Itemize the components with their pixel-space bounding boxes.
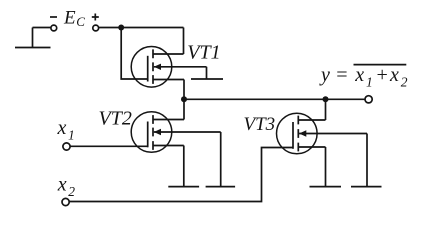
- junction dot output left: [181, 96, 187, 102]
- svg-text:+: +: [375, 64, 389, 86]
- svg-text:x: x: [57, 117, 67, 139]
- wire supply rail: [99, 27, 184, 29]
- ground VT2 source: [168, 146, 199, 187]
- wire VT1 gate feed: [121, 28, 148, 80]
- wire VT2 source stub: [153, 145, 184, 147]
- svg-text:x: x: [354, 64, 364, 86]
- terminal plus: [93, 25, 99, 31]
- svg-text:1: 1: [68, 127, 75, 142]
- wire VT3 source stub: [298, 146, 325, 148]
- wire VT3 substrate: [299, 133, 367, 135]
- svg-text:VT1: VT1: [187, 42, 220, 64]
- ground VT3 source: [310, 147, 342, 187]
- label y formula: [319, 64, 408, 89]
- svg-text:2: 2: [401, 75, 408, 90]
- wire VT1 source stub: [153, 79, 184, 81]
- wire x2 to VT3 gate: [69, 148, 293, 202]
- wire VT1 substrate: [154, 66, 207, 68]
- wire: [33, 27, 51, 29]
- svg-text:x: x: [57, 173, 67, 195]
- transistor VT1: [131, 47, 172, 88]
- overline: [354, 64, 407, 66]
- junction dot output right: [323, 96, 329, 102]
- svg-text:1: 1: [366, 75, 373, 90]
- wire VT2 drain stub: [153, 119, 184, 121]
- wire VT1 drain stub: [153, 53, 184, 55]
- label EC: [63, 8, 85, 30]
- ground VT1 substrate: [191, 67, 223, 79]
- svg-text:C: C: [76, 14, 85, 29]
- wire VT1 drain feed: [183, 28, 185, 55]
- terminal minus: [51, 25, 57, 31]
- terminal x1: [63, 143, 70, 150]
- svg-text:E: E: [63, 8, 76, 29]
- transistor VT2: [131, 112, 172, 153]
- ground VT2 substrate: [206, 132, 236, 187]
- label plus: [92, 14, 99, 21]
- wire VT3 drain to output: [325, 99, 327, 120]
- svg-text:2: 2: [68, 184, 75, 199]
- ground VT3 substrate: [351, 134, 382, 187]
- wire VT3 drain stub: [298, 119, 325, 121]
- wire output: [184, 98, 365, 100]
- wire VT2 substrate: [154, 131, 221, 133]
- label minus: [50, 16, 57, 18]
- svg-text:y: y: [319, 64, 330, 86]
- svg-text:=: =: [335, 64, 349, 86]
- terminal output: [365, 96, 372, 103]
- label x1: [57, 117, 75, 143]
- terminal x2: [62, 198, 69, 205]
- svg-text:x: x: [389, 64, 399, 86]
- svg-text:VT2: VT2: [99, 108, 132, 130]
- wire x1 to VT2 gate: [70, 145, 148, 147]
- label x2: [57, 173, 75, 199]
- junction dot: [118, 25, 124, 31]
- transistor VT3: [277, 113, 318, 154]
- ground: [15, 28, 51, 48]
- wire VT1 source to VT2 drain: [183, 80, 185, 120]
- svg-text:VT3: VT3: [244, 114, 276, 135]
